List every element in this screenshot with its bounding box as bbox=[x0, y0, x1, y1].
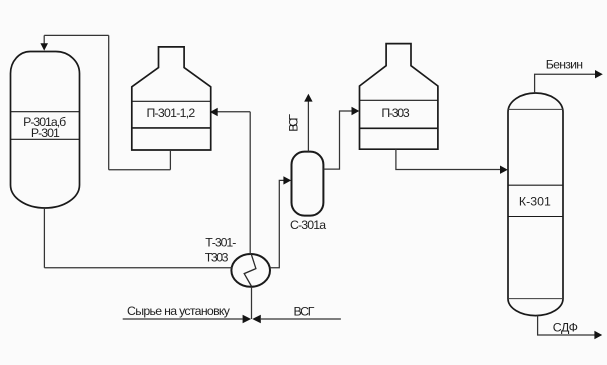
wire junction riser to exchanger bottom bbox=[251, 287, 253, 319]
furnace P-303 band bottom line bbox=[360, 127, 438, 129]
wire furnace P-303 outlet to column bbox=[396, 149, 501, 169]
furnace P-303 band top line bbox=[360, 99, 438, 101]
svg-text:С-301а: С-301а bbox=[290, 218, 326, 232]
wire reactor to exchanger horizontal bbox=[44, 267, 232, 269]
wire VSG inlet right horizontal bbox=[261, 318, 341, 320]
reactor band top line bbox=[11, 111, 80, 113]
wire left riser up bbox=[108, 35, 110, 169]
arrow VSG left into junction bbox=[252, 315, 260, 324]
arrow into furnace P-303 left side bbox=[352, 107, 360, 115]
separator S-301a capsule bbox=[292, 152, 324, 216]
svg-text:Р-301: Р-301 bbox=[31, 126, 60, 140]
wire feed riser through exchanger up bbox=[249, 112, 251, 255]
svg-text:Т-301-: Т-301- bbox=[205, 236, 236, 250]
svg-text:Т303: Т303 bbox=[205, 250, 229, 264]
wire separator right to furnace P-303 bbox=[323, 111, 352, 169]
heat exchanger T-301-T303 circle bbox=[231, 254, 270, 287]
column K-301 vessel bbox=[508, 93, 563, 316]
wire feed inlet left horizontal bbox=[123, 318, 243, 320]
arrow into column K-301 left side bbox=[500, 166, 508, 174]
svg-text:П-303: П-303 bbox=[381, 106, 409, 120]
wire bottom horizontal to left riser bbox=[109, 169, 171, 171]
svg-text:П-301-1,2: П-301-1,2 bbox=[146, 106, 195, 120]
furnace P-301-1,2 bbox=[132, 47, 211, 150]
arrow benzin right bbox=[595, 70, 603, 78]
arrow into furnace P-301 right side bbox=[210, 108, 218, 116]
svg-text:Бензин: Бензин bbox=[546, 58, 583, 72]
wire exchanger right outlet bbox=[270, 180, 285, 267]
reactor band bottom line bbox=[11, 138, 80, 140]
wire furnace P-301 outlet down bbox=[169, 150, 171, 170]
column band bottom line bbox=[508, 216, 563, 218]
svg-text:ВСГ: ВСГ bbox=[287, 114, 301, 132]
column top dome chord line bbox=[508, 108, 563, 110]
arrow into reactor top bbox=[40, 43, 48, 50]
arrow VSG up bbox=[304, 94, 312, 102]
svg-text:СДФ: СДФ bbox=[553, 320, 578, 334]
arrow feed right into junction bbox=[243, 315, 252, 324]
arrow SDF right bbox=[594, 331, 602, 339]
column band top line bbox=[508, 184, 563, 186]
svg-text:ВСГ: ВСГ bbox=[294, 305, 315, 319]
heat exchanger zigzag bbox=[244, 254, 256, 286]
arrow into separator left side bbox=[283, 176, 291, 184]
furnace P-303 bbox=[360, 44, 438, 150]
wire top horizontal to reactor bbox=[44, 34, 109, 36]
wire reactor bottom outlet bbox=[43, 208, 45, 268]
wire feed top horizontal to furnace P-301 bbox=[217, 111, 251, 113]
wire drop into reactor top bbox=[43, 35, 45, 43]
furnace P-301 band bottom line bbox=[132, 127, 211, 129]
svg-text:Сырье на установку: Сырье на установку bbox=[127, 304, 231, 318]
wire column top to benzin line bbox=[535, 74, 596, 93]
wire column bottom to SDF line bbox=[538, 315, 595, 335]
wire separator top gas line bbox=[307, 102, 309, 152]
svg-text:К-301: К-301 bbox=[519, 194, 551, 208]
reactor R-301a,b vessel bbox=[11, 52, 80, 208]
column bottom dome chord line bbox=[508, 298, 563, 300]
furnace P-301 band top line bbox=[132, 100, 211, 102]
